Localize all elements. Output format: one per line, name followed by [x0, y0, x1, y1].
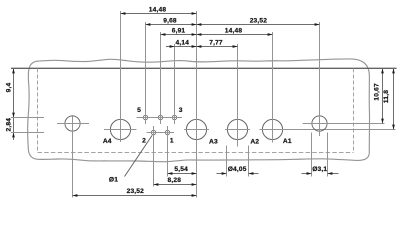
- svg-text:A4: A4: [103, 138, 112, 145]
- dim 4,14: pin 3 to A3, outside arrow left: [166, 46, 197, 48]
- A1 centerline extended right to 11,8 dim line: [260, 129, 396, 131]
- dim 14,48 right: A3 to A1: [197, 34, 273, 36]
- svg-text:1: 1: [170, 138, 174, 145]
- svg-text:10,67: 10,67: [373, 83, 380, 101]
- part outer outline (wavy housing edge): [28, 59, 370, 162]
- pin 2 extension line down to 8,28 dim: [153, 126, 155, 187]
- dim 9,68: pin 5 to A3: [146, 24, 197, 26]
- hole A3 diam 4,05: [186, 119, 206, 139]
- dim 14,48 top-left: A4 to A3: [121, 13, 197, 15]
- svg-text:11,8: 11,8: [383, 90, 390, 103]
- inner recess left edge (hidden, dashed): [37, 69, 39, 153]
- pin 1 extension line down to 5,54 dim: [167, 126, 169, 177]
- svg-text:7,77: 7,77: [209, 40, 223, 47]
- left hole centerlines + extension down to 23,52 dim: [57, 123, 89, 125]
- pin hole 3 diam 1: [172, 115, 176, 119]
- hole A2 diam 4,05: [227, 119, 247, 139]
- svg-text:4,14: 4,14: [176, 40, 190, 47]
- svg-text:A1: A1: [283, 138, 292, 145]
- dim 9,4: inner top edge to top pin row: [13, 69, 15, 118]
- inner recess bottom edge (hidden, dashed): [38, 152, 354, 154]
- inner recess top edge with 9,4 and 10,67/11,8 extension line: [11, 67, 397, 69]
- svg-text:14,48: 14,48: [149, 7, 167, 14]
- hole A1 diam 4,05: [262, 119, 282, 139]
- svg-text:A2: A2: [250, 139, 259, 146]
- bottom pin row centerline: [147, 132, 175, 134]
- dim 8,28: pin 2 to A3: [154, 184, 197, 186]
- svg-text:Ø4,05: Ø4,05: [228, 166, 247, 173]
- hole A4 diam 4,05: [110, 119, 130, 139]
- hole left diam 3,1: [65, 116, 80, 131]
- svg-text:23,52: 23,52: [127, 188, 145, 195]
- dim 5,54: pin 1 to A3: [168, 173, 197, 175]
- svg-text:Ø1: Ø1: [109, 177, 118, 184]
- A3 centerlines, common reference line top to bottom: [184, 129, 209, 131]
- dim 10,67: inner top edge to right hole row: [382, 69, 384, 124]
- pin hole 2 diam 1: [151, 130, 155, 134]
- pin 3 extension line up to dim row 4: [174, 44, 176, 124]
- svg-text:5,54: 5,54: [174, 166, 188, 173]
- top pin row centerline: [137, 117, 183, 119]
- right hole extension up to 23,52 dim: [319, 22, 321, 136]
- pin 5 extension line up to dim row 2: [145, 22, 147, 124]
- svg-text:2: 2: [142, 138, 146, 145]
- svg-text:3: 3: [179, 107, 183, 114]
- svg-text:9,68: 9,68: [163, 18, 177, 25]
- svg-text:5: 5: [137, 107, 141, 114]
- right hole centerline extended right to 10,67 dim line: [303, 123, 385, 125]
- dim diam 4,05 on hole A2, outside arrows: [226, 146, 228, 177]
- A2 centerlines + extension up to 7,77 dim: [225, 129, 250, 131]
- dim 23,52 bottom: left hole to A3: [73, 195, 197, 197]
- dim 6,91: pin 4 to A3: [161, 34, 197, 36]
- pin hole 5 diam 1: [143, 115, 147, 119]
- hole right diam 3,1: [312, 116, 327, 131]
- svg-text:Ø3,1: Ø3,1: [312, 166, 327, 173]
- svg-text:14,48: 14,48: [225, 28, 243, 35]
- A4 centerlines + extension up to 14,48 dim: [104, 129, 137, 131]
- dim diam 3,1 on right hole, outside arrows: [311, 133, 313, 177]
- svg-text:A3: A3: [209, 139, 218, 146]
- inner recess right edge (hidden, dashed): [353, 69, 355, 153]
- svg-text:2,84: 2,84: [5, 118, 12, 132]
- pin 4 extension line up to dim row 3: [160, 32, 162, 124]
- dim 23,52 top-right: A3 to right hole: [197, 24, 320, 26]
- svg-text:8,28: 8,28: [168, 177, 182, 184]
- svg-text:9,4: 9,4: [5, 83, 12, 93]
- svg-text:6,91: 6,91: [172, 28, 186, 35]
- svg-text:23,52: 23,52: [250, 18, 268, 25]
- dim 11,8: inner top edge to A-hole row: [393, 69, 395, 130]
- pin hole 4 diam 1: [158, 115, 162, 119]
- A1 extension up to 14,48 dim: [272, 32, 274, 143]
- dim 2,84: pin row to pin row, outside arrows: [13, 118, 15, 141]
- pin hole 1 diam 1: [165, 130, 169, 134]
- dim 7,77: A3 to A2: [197, 46, 238, 48]
- 9,4 / 2,84 extension lines: [11, 117, 44, 119]
